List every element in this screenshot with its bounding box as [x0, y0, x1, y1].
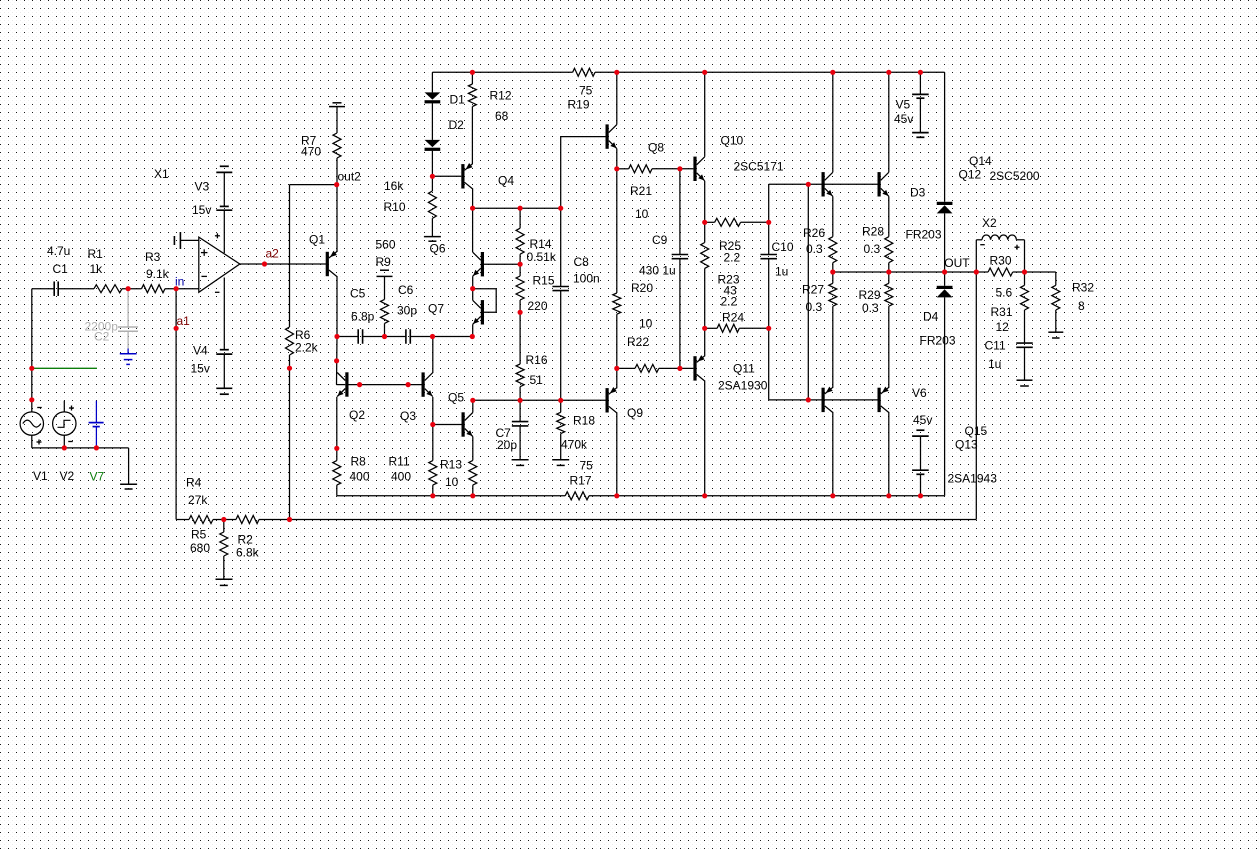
svg-text:Q14: Q14 — [969, 154, 992, 168]
svg-text:R8: R8 — [351, 455, 367, 469]
svg-text:2.2: 2.2 — [721, 295, 738, 309]
svg-text:R21: R21 — [630, 184, 652, 198]
svg-text:V1: V1 — [33, 469, 48, 483]
svg-text:R20: R20 — [631, 281, 653, 295]
svg-text:8: 8 — [1078, 299, 1085, 313]
svg-text:R10: R10 — [384, 200, 406, 214]
svg-text:Q6: Q6 — [430, 242, 446, 256]
svg-text:R24: R24 — [722, 311, 744, 325]
svg-text:30p: 30p — [397, 304, 417, 318]
svg-text:Q15: Q15 — [965, 424, 988, 438]
svg-text:R12: R12 — [490, 89, 512, 103]
svg-text:FR203: FR203 — [920, 334, 956, 348]
svg-text:R15: R15 — [533, 274, 555, 288]
svg-text:Q10: Q10 — [721, 134, 744, 148]
svg-text:C6: C6 — [398, 283, 414, 297]
svg-text:C8: C8 — [574, 255, 590, 269]
svg-text:10: 10 — [445, 475, 459, 489]
svg-text:D3: D3 — [910, 186, 926, 200]
svg-text:V4: V4 — [193, 344, 208, 358]
svg-text:R3: R3 — [145, 250, 161, 264]
svg-text:Q8: Q8 — [648, 141, 664, 155]
svg-text:45v: 45v — [894, 112, 913, 126]
svg-text:X2: X2 — [982, 216, 997, 230]
svg-text:C5: C5 — [350, 287, 366, 301]
svg-text:R4: R4 — [186, 476, 202, 490]
svg-text:15v: 15v — [191, 362, 210, 376]
svg-text:9.1k: 9.1k — [146, 267, 170, 281]
svg-text:out2: out2 — [338, 170, 362, 184]
svg-text:V3: V3 — [195, 180, 210, 194]
svg-text:75: 75 — [579, 84, 593, 98]
svg-text:R28: R28 — [862, 225, 884, 239]
svg-text:R27: R27 — [802, 283, 824, 297]
svg-text:2.2: 2.2 — [724, 251, 741, 265]
svg-text:16k: 16k — [384, 179, 404, 193]
svg-text:X1: X1 — [154, 167, 169, 181]
svg-text:Q1: Q1 — [309, 233, 325, 247]
svg-text:R32: R32 — [1072, 281, 1094, 295]
svg-text:15v: 15v — [192, 203, 211, 217]
svg-text:Q4: Q4 — [498, 174, 514, 188]
svg-text:R31: R31 — [991, 305, 1013, 319]
svg-text:4.7u: 4.7u — [47, 244, 70, 258]
svg-text:5.6: 5.6 — [996, 286, 1013, 300]
svg-text:45v: 45v — [913, 413, 932, 427]
svg-text:R2: R2 — [238, 533, 254, 547]
svg-text:Q7: Q7 — [428, 302, 444, 316]
svg-text:R16: R16 — [526, 353, 548, 367]
svg-text:0.3: 0.3 — [806, 242, 823, 256]
svg-text:R17: R17 — [570, 474, 592, 488]
svg-text:2SC5171: 2SC5171 — [734, 160, 784, 174]
svg-text:V2: V2 — [60, 469, 75, 483]
svg-text:68: 68 — [495, 109, 509, 123]
svg-text:470k: 470k — [561, 438, 588, 452]
svg-text:R26: R26 — [803, 226, 825, 240]
svg-text:2SC5200: 2SC5200 — [990, 169, 1040, 183]
svg-text:D2: D2 — [449, 118, 465, 132]
svg-text:470: 470 — [301, 145, 321, 159]
svg-text:FR203: FR203 — [906, 228, 942, 242]
svg-text:in: in — [175, 275, 184, 289]
svg-text:a2: a2 — [266, 247, 280, 261]
svg-text:C1: C1 — [53, 262, 69, 276]
svg-text:Q11: Q11 — [733, 362, 755, 376]
svg-text:75: 75 — [580, 459, 594, 473]
svg-text:1k: 1k — [90, 262, 104, 276]
svg-text:C9: C9 — [652, 233, 668, 247]
svg-text:R9: R9 — [376, 255, 392, 269]
svg-text:Q3: Q3 — [400, 409, 416, 423]
svg-text:1u: 1u — [775, 265, 788, 279]
svg-text:C10: C10 — [772, 240, 794, 254]
svg-text:0.51k: 0.51k — [527, 250, 557, 264]
svg-text:2SA1930: 2SA1930 — [718, 379, 768, 393]
svg-text:V5: V5 — [896, 98, 911, 112]
svg-text:430 1u: 430 1u — [639, 264, 676, 278]
svg-text:10: 10 — [635, 207, 649, 221]
svg-text:100n: 100n — [573, 272, 600, 286]
svg-text:R14: R14 — [530, 237, 552, 251]
svg-text:R13: R13 — [440, 458, 462, 472]
svg-text:R30: R30 — [990, 254, 1012, 268]
svg-text:2.2k: 2.2k — [295, 341, 319, 355]
svg-text:6.8p: 6.8p — [351, 310, 375, 324]
svg-text:OUT: OUT — [944, 256, 970, 270]
svg-text:D1: D1 — [450, 93, 466, 107]
svg-text:12: 12 — [996, 320, 1010, 334]
svg-text:R19: R19 — [568, 98, 590, 112]
svg-text:D4: D4 — [923, 310, 939, 324]
svg-text:Q9: Q9 — [627, 406, 643, 420]
svg-text:400: 400 — [391, 470, 411, 484]
svg-text:680: 680 — [190, 541, 210, 555]
svg-text:0.3: 0.3 — [864, 242, 881, 256]
svg-text:R22: R22 — [627, 335, 649, 349]
svg-text:a1: a1 — [177, 314, 191, 328]
svg-text:220: 220 — [528, 299, 548, 313]
svg-text:R1: R1 — [88, 247, 104, 261]
svg-text:Q2: Q2 — [349, 408, 365, 422]
svg-text:V7: V7 — [90, 470, 105, 484]
svg-text:2SA1943: 2SA1943 — [948, 472, 998, 486]
svg-text:R18: R18 — [573, 414, 595, 428]
svg-text:51: 51 — [530, 373, 544, 387]
svg-text:R29: R29 — [859, 288, 881, 302]
svg-text:6.8k: 6.8k — [236, 546, 260, 560]
svg-text:Q13: Q13 — [955, 438, 978, 452]
svg-text:0.3: 0.3 — [862, 301, 879, 315]
svg-text:1u: 1u — [988, 357, 1001, 371]
svg-text:R5: R5 — [191, 528, 207, 542]
svg-text:C11: C11 — [985, 339, 1006, 353]
svg-text:Q5: Q5 — [448, 391, 464, 405]
svg-text:R11: R11 — [389, 455, 410, 469]
svg-text:C2: C2 — [94, 330, 110, 344]
svg-text:0.3: 0.3 — [806, 300, 823, 314]
svg-text:560: 560 — [376, 238, 396, 252]
svg-text:10: 10 — [639, 317, 653, 331]
svg-text:20p: 20p — [497, 438, 517, 452]
svg-text:Q12: Q12 — [959, 168, 982, 182]
svg-text:400: 400 — [350, 470, 370, 484]
svg-text:V6: V6 — [912, 386, 927, 400]
svg-text:27k: 27k — [188, 493, 208, 507]
